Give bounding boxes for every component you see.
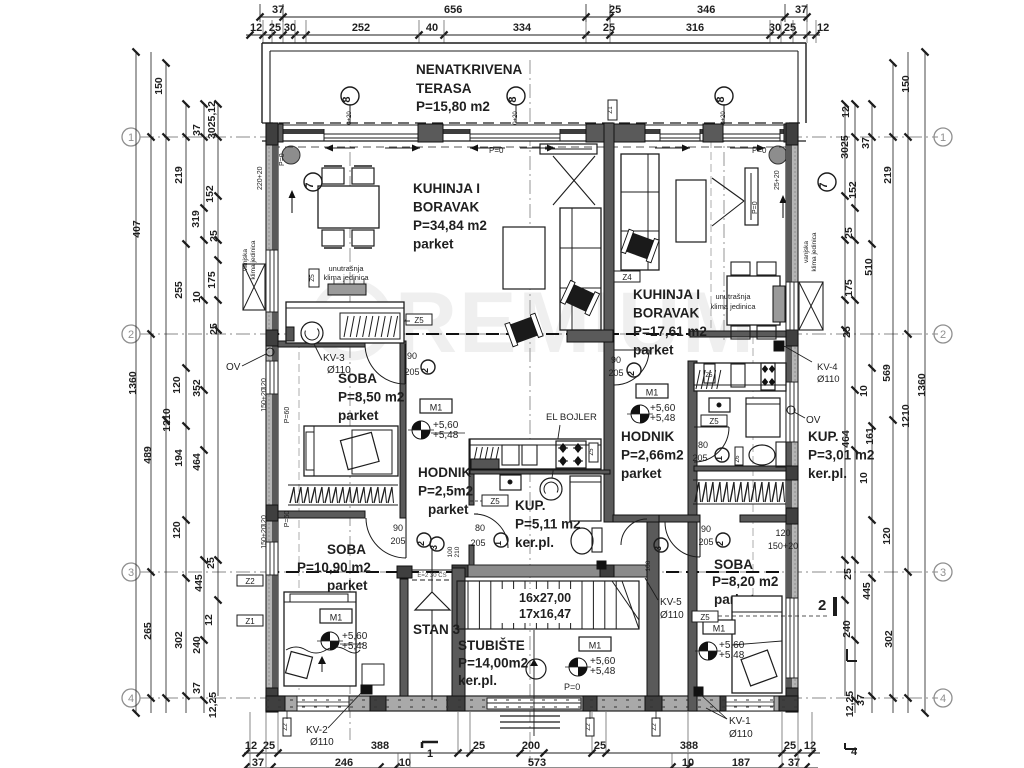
svg-text:KUHINJA I: KUHINJA I [413, 181, 480, 196]
svg-text:STAN 3: STAN 3 [413, 622, 460, 637]
svg-text:Z1: Z1 [245, 617, 255, 626]
svg-text:80: 80 [475, 523, 485, 533]
svg-text:12: 12 [245, 740, 257, 752]
svg-text:BORAVAK: BORAVAK [413, 200, 479, 215]
svg-text:parket: parket [338, 408, 379, 423]
svg-text:Z5: Z5 [589, 448, 595, 456]
svg-text:175: 175 [843, 279, 855, 297]
svg-text:25: 25 [784, 22, 796, 34]
svg-text:vanjska: vanjska [803, 241, 810, 263]
svg-text:P=0: P=0 [752, 146, 767, 155]
svg-text:12: 12 [840, 106, 852, 118]
svg-text:ker.pl.: ker.pl. [458, 673, 497, 688]
svg-text:3: 3 [128, 567, 134, 579]
svg-text:OV: OV [806, 415, 821, 426]
svg-text:30: 30 [769, 22, 781, 34]
svg-text:Z5: Z5 [414, 316, 424, 325]
svg-text:210: 210 [454, 546, 461, 557]
svg-text:P=34,84 m2: P=34,84 m2 [413, 218, 487, 233]
svg-text:4: 4 [940, 693, 946, 705]
svg-text:388: 388 [680, 740, 698, 752]
svg-text:3: 3 [429, 545, 439, 550]
svg-text:246: 246 [335, 757, 353, 768]
svg-text:2: 2 [420, 368, 430, 373]
svg-text:KV-3: KV-3 [323, 353, 345, 364]
svg-text:NENATKRIVENA: NENATKRIVENA [416, 62, 523, 77]
svg-text:30: 30 [284, 22, 296, 34]
svg-text:unutrašnja: unutrašnja [328, 264, 364, 273]
svg-text:219: 219 [173, 166, 185, 184]
svg-text:vanjska: vanjska [242, 249, 249, 271]
svg-text:205: 205 [608, 368, 623, 378]
svg-text:37: 37 [860, 137, 872, 149]
svg-text:200: 200 [522, 740, 540, 752]
svg-text:25: 25 [594, 740, 606, 752]
svg-text:25: 25 [841, 326, 853, 338]
svg-text:+5,48: +5,48 [590, 666, 616, 677]
svg-text:150: 150 [900, 75, 912, 93]
svg-text:KUHINJA I: KUHINJA I [633, 287, 700, 302]
svg-text:2: 2 [715, 541, 725, 546]
svg-text:12,25: 12,25 [207, 692, 219, 718]
svg-text:klima jedinica: klima jedinica [250, 240, 257, 279]
svg-text:100: 100 [447, 546, 454, 557]
svg-text:4: 4 [128, 693, 134, 705]
svg-text:1: 1 [427, 748, 433, 760]
svg-text:120: 120 [775, 528, 790, 538]
svg-text:120: 120 [171, 521, 183, 539]
svg-text:25: 25 [609, 4, 621, 16]
svg-text:37: 37 [855, 694, 867, 706]
svg-text:152: 152 [204, 185, 216, 203]
svg-text:1: 1 [940, 132, 946, 144]
svg-text:M1: M1 [430, 403, 443, 413]
svg-text:ker.pl.: ker.pl. [808, 466, 847, 481]
svg-text:2: 2 [128, 329, 134, 341]
svg-text:90: 90 [611, 355, 621, 365]
svg-text:KV-4: KV-4 [817, 362, 838, 373]
svg-text:12: 12 [250, 22, 262, 34]
svg-text:10: 10 [191, 291, 203, 303]
svg-text:255: 255 [173, 281, 185, 299]
svg-text:P=17,61 m2: P=17,61 m2 [633, 324, 707, 339]
svg-text:M1: M1 [330, 613, 343, 623]
svg-text:161: 161 [864, 427, 876, 445]
svg-text:100: 100 [645, 560, 652, 571]
svg-text:40: 40 [426, 22, 438, 34]
svg-text:80: 80 [698, 440, 708, 450]
svg-text:Z5: Z5 [490, 497, 500, 506]
svg-text:+5,48: +5,48 [342, 641, 368, 652]
svg-text:1210: 1210 [161, 408, 173, 432]
svg-text:12: 12 [817, 22, 829, 34]
svg-text:Z4: Z4 [622, 273, 632, 282]
svg-text:445: 445 [193, 574, 205, 592]
svg-text:25: 25 [784, 740, 796, 752]
svg-text:25: 25 [473, 740, 485, 752]
svg-text:P=14,00m2: P=14,00m2 [458, 656, 528, 671]
svg-text:150+20: 150+20 [261, 388, 268, 412]
svg-text:252: 252 [352, 22, 370, 34]
svg-text:Z5: Z5 [700, 613, 710, 622]
svg-text:KV-1: KV-1 [729, 716, 751, 727]
svg-text:Z6: Z6 [735, 455, 741, 463]
svg-text:parket: parket [413, 237, 454, 252]
svg-text:37: 37 [272, 4, 284, 16]
svg-text:346: 346 [697, 4, 715, 16]
svg-text:7: 7 [304, 182, 316, 188]
svg-text:P=8,50 m2: P=8,50 m2 [338, 390, 404, 405]
svg-text:2: 2 [940, 329, 946, 341]
svg-text:150+20: 150+20 [261, 525, 268, 549]
svg-text:M1: M1 [713, 624, 726, 634]
svg-text:152: 152 [847, 181, 859, 199]
svg-text:219: 219 [882, 166, 894, 184]
svg-text:352: 352 [191, 379, 203, 397]
svg-text:205: 205 [390, 536, 405, 546]
svg-text:10: 10 [399, 757, 411, 768]
svg-text:2: 2 [416, 541, 426, 546]
svg-text:8: 8 [507, 96, 519, 102]
svg-text:Ø110: Ø110 [660, 610, 684, 621]
svg-text:240: 240 [841, 620, 853, 638]
svg-text:M1: M1 [589, 641, 602, 651]
svg-text:120: 120 [261, 515, 268, 527]
svg-text:klima jedinica: klima jedinica [710, 302, 756, 311]
svg-text:P=8,20 m2: P=8,20 m2 [712, 574, 778, 589]
svg-text:1: 1 [714, 456, 724, 461]
svg-text:12: 12 [203, 614, 215, 626]
svg-text:Ø110: Ø110 [327, 365, 351, 376]
svg-text:OV: OV [226, 362, 241, 373]
svg-text:120: 120 [171, 376, 183, 394]
svg-text:3: 3 [940, 567, 946, 579]
svg-text:1360: 1360 [916, 373, 928, 397]
svg-text:205: 205 [470, 538, 485, 548]
svg-text:Z2: Z2 [245, 577, 255, 586]
svg-text:25: 25 [842, 568, 854, 580]
svg-text:37: 37 [252, 757, 264, 768]
svg-text:302: 302 [173, 631, 185, 649]
svg-text:90: 90 [701, 524, 711, 534]
svg-text:STUBIŠTE: STUBIŠTE [458, 638, 525, 653]
svg-text:Z5: Z5 [705, 373, 713, 379]
svg-text:2: 2 [626, 371, 636, 376]
svg-text:HODNIK: HODNIK [418, 465, 471, 480]
svg-text:P=0: P=0 [564, 682, 580, 692]
svg-text:240: 240 [191, 636, 203, 654]
svg-text:Z2: Z2 [282, 723, 289, 731]
svg-text:Z5: Z5 [309, 274, 316, 282]
svg-text:P=0: P=0 [279, 153, 286, 166]
svg-text:573: 573 [528, 757, 546, 768]
svg-text:334: 334 [513, 22, 532, 34]
svg-text:90: 90 [393, 523, 403, 533]
svg-text:Z2: Z2 [585, 723, 592, 731]
svg-text:KUP.: KUP. [808, 429, 839, 444]
svg-text:M1: M1 [646, 388, 659, 398]
svg-text:220+20: 220+20 [257, 166, 264, 190]
svg-text:25: 25 [603, 22, 615, 34]
svg-text:445: 445 [861, 582, 873, 600]
svg-text:P=0: P=0 [489, 146, 504, 155]
svg-text:1: 1 [128, 132, 134, 144]
svg-text:37: 37 [191, 124, 203, 136]
svg-text:205: 205 [692, 453, 707, 463]
svg-text:569: 569 [881, 364, 893, 382]
svg-text:klima jedinica: klima jedinica [323, 273, 369, 282]
svg-text:25: 25 [208, 230, 220, 242]
svg-text:7: 7 [818, 182, 830, 188]
svg-text:Z5: Z5 [709, 417, 719, 426]
svg-text:25: 25 [269, 22, 281, 34]
svg-text:10: 10 [858, 472, 870, 484]
svg-text:90: 90 [407, 351, 417, 361]
svg-text:8: 8 [715, 96, 727, 102]
svg-text:489: 489 [142, 446, 154, 464]
svg-text:KV-5: KV-5 [660, 597, 682, 608]
svg-text:120: 120 [881, 527, 893, 545]
svg-text:+5,48: +5,48 [433, 430, 459, 441]
svg-text:464: 464 [191, 453, 203, 471]
svg-text:KV-2: KV-2 [306, 725, 328, 736]
svg-text:Ø110: Ø110 [310, 737, 334, 748]
svg-text:parket: parket [327, 578, 368, 593]
svg-text:parket: parket [621, 466, 662, 481]
svg-text:302: 302 [883, 630, 895, 648]
svg-text:37: 37 [795, 4, 807, 16]
svg-text:205: 205 [698, 537, 713, 547]
svg-text:25: 25 [843, 227, 855, 239]
svg-text:388: 388 [371, 740, 389, 752]
svg-text:P=60: P=60 [284, 407, 291, 424]
svg-text:P=10,90 m2: P=10,90 m2 [297, 560, 371, 575]
svg-text:464: 464 [840, 430, 852, 448]
svg-text:150+20: 150+20 [768, 541, 798, 551]
svg-text:205: 205 [404, 367, 419, 377]
svg-text:Ø110: Ø110 [729, 729, 753, 740]
svg-text:150: 150 [153, 77, 165, 95]
svg-text:SOBA: SOBA [714, 557, 753, 572]
svg-text:1360: 1360 [127, 371, 139, 395]
svg-text:8: 8 [341, 96, 353, 102]
svg-text:Ø110: Ø110 [817, 374, 840, 385]
svg-text:+5,48: +5,48 [650, 413, 676, 424]
svg-text:P=60: P=60 [284, 511, 291, 528]
svg-text:25: 25 [263, 740, 275, 752]
svg-text:407: 407 [131, 220, 143, 238]
svg-text:SOBA: SOBA [327, 542, 366, 557]
svg-text:KUP.: KUP. [515, 498, 546, 513]
svg-text:17x16,47: 17x16,47 [519, 607, 571, 621]
svg-text:120: 120 [261, 378, 268, 390]
svg-text:ker.pl.: ker.pl. [515, 535, 554, 550]
svg-text:Z2: Z2 [651, 723, 658, 731]
svg-text:3: 3 [653, 546, 663, 551]
svg-text:10: 10 [858, 385, 870, 397]
svg-text:656: 656 [444, 4, 462, 16]
svg-text:1210: 1210 [900, 404, 912, 428]
svg-text:4: 4 [851, 746, 858, 758]
svg-text:unutrašnja: unutrašnja [715, 292, 751, 301]
svg-text:BORAVAK: BORAVAK [633, 306, 699, 321]
svg-text:parket: parket [428, 502, 469, 517]
svg-text:25: 25 [205, 557, 217, 569]
svg-text:EL BOJLER: EL BOJLER [546, 412, 597, 423]
svg-text:37: 37 [191, 682, 203, 694]
svg-text:P=3,01 m2: P=3,01 m2 [808, 448, 874, 463]
svg-text:194: 194 [173, 449, 185, 467]
svg-text:12: 12 [804, 740, 816, 752]
svg-text:16x27,00: 16x27,00 [519, 591, 571, 605]
svg-text:510: 510 [863, 258, 875, 276]
svg-text:HODNIK: HODNIK [621, 429, 674, 444]
svg-text:+5,48: +5,48 [719, 650, 745, 661]
svg-text:Z1: Z1 [607, 106, 614, 114]
svg-text:1: 1 [493, 541, 503, 546]
svg-text:187: 187 [732, 757, 750, 768]
svg-text:319: 319 [190, 210, 202, 228]
svg-text:175: 175 [206, 271, 218, 289]
svg-text:TERASA: TERASA [416, 81, 472, 96]
svg-text:klima jedinica: klima jedinica [811, 232, 818, 271]
svg-text:265: 265 [142, 622, 154, 640]
svg-text:3025: 3025 [839, 135, 851, 159]
svg-text:25+20: 25+20 [774, 170, 781, 190]
svg-text:3025,12: 3025,12 [206, 101, 218, 139]
svg-text:P=0: P=0 [752, 201, 759, 214]
svg-text:P=2,5m2: P=2,5m2 [418, 484, 473, 499]
svg-text:P=15,80 m2: P=15,80 m2 [416, 99, 490, 114]
svg-text:316: 316 [686, 22, 704, 34]
svg-text:P=2,66m2: P=2,66m2 [621, 448, 684, 463]
svg-text:2: 2 [818, 597, 826, 614]
svg-text:25: 25 [208, 323, 220, 335]
